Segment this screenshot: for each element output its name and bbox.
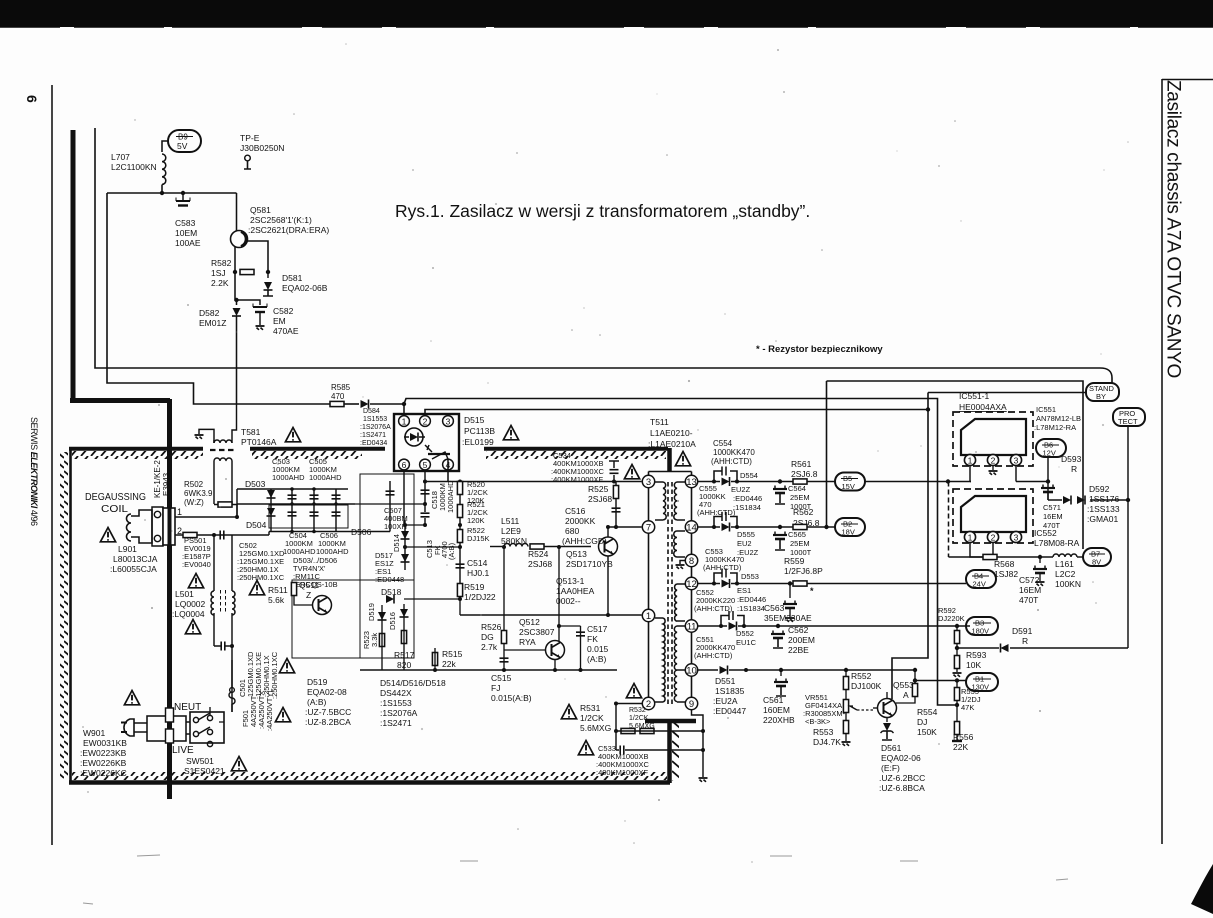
svg-text:1/2CK: 1/2CK [580, 713, 604, 723]
svg-text:EU1C: EU1C [736, 638, 757, 647]
svg-text:3: 3 [1014, 456, 1019, 466]
svg-text:R552: R552 [851, 671, 872, 681]
svg-text:100KN: 100KN [1055, 579, 1081, 589]
svg-text::1S2076A: :1S2076A [360, 424, 391, 431]
fuse F501 [231, 704, 233, 712]
ground below R593 [953, 673, 962, 677]
svg-text::LQ0004: :LQ0004 [172, 609, 205, 619]
transistor Q513 2SD1710YB [599, 537, 618, 556]
T511 secondary winding 14-8 [677, 531, 685, 557]
hatched enclosure: left border [69, 448, 72, 783]
svg-text::EV0040: :EV0040 [182, 560, 211, 569]
T511 primary winding 1-2 [655, 618, 663, 702]
wire: bottom return bus [360, 669, 617, 671]
svg-text:S1ES0421: S1ES0421 [184, 766, 225, 776]
svg-text:EU2Z: EU2Z [731, 485, 751, 494]
resistor R582 [240, 269, 254, 274]
svg-text:200EM: 200EM [788, 635, 815, 645]
svg-text:1000KK470: 1000KK470 [713, 448, 755, 457]
svg-text:D506: D506 [351, 527, 372, 537]
svg-text:IC552: IC552 [1034, 528, 1057, 538]
svg-text:1000AHD: 1000AHD [283, 547, 316, 556]
wire: rail 12 (B4 24V) [698, 583, 966, 585]
svg-text:2SJ68: 2SJ68 [528, 559, 552, 569]
svg-text:D592: D592 [1089, 484, 1110, 494]
svg-text:D516: D516 [388, 612, 397, 630]
svg-text:DS442X: DS442X [380, 688, 412, 698]
svg-text:2: 2 [991, 533, 996, 543]
diode D552 EU1C [729, 622, 737, 631]
svg-text:(A:B): (A:B) [447, 542, 456, 560]
capacitor C572 16EM 470T node [1038, 555, 1042, 559]
svg-text:10K: 10K [966, 660, 981, 670]
svg-text:R524: R524 [528, 549, 549, 559]
svg-text:C572: C572 [1019, 575, 1040, 585]
ground below pin 9 [699, 778, 708, 782]
svg-text:180V: 180V [972, 627, 990, 636]
diode D554 EU2Z [722, 477, 730, 486]
svg-text:D555: D555 [737, 530, 755, 539]
svg-text:LQ0002: LQ0002 [175, 599, 206, 609]
svg-text:(AHH:CTD): (AHH:CTD) [697, 508, 736, 517]
thick vertical mains separator [167, 399, 172, 799]
wire: T511 secondary rail [691, 472, 693, 704]
svg-text:(AHH:CTD): (AHH:CTD) [711, 457, 752, 466]
svg-text:EQA02-08: EQA02-08 [307, 687, 347, 697]
svg-text:1: 1 [402, 417, 407, 427]
svg-text:C571: C571 [1043, 503, 1061, 512]
capacitor C551 bracket [721, 616, 744, 627]
svg-text:L2E9: L2E9 [501, 526, 521, 536]
svg-text:C563: C563 [764, 603, 785, 613]
warning triangle near R531 [561, 705, 576, 719]
svg-text:1SS176: 1SS176 [1089, 494, 1120, 504]
T511 secondary winding 13-14 [677, 482, 685, 520]
capacitor C553 bracket [714, 517, 737, 528]
svg-text:Zasilacz chassis A7A OTVC SANY: Zasilacz chassis A7A OTVC SANYO [1163, 80, 1184, 378]
svg-text:C583: C583 [175, 218, 196, 228]
wire: R520 chain column [459, 482, 461, 576]
caps between [221, 642, 225, 651]
svg-text:7: 7 [646, 523, 651, 534]
svg-text:16EM: 16EM [1043, 512, 1063, 521]
svg-text:5V: 5V [177, 141, 188, 151]
svg-text:8: 8 [689, 556, 694, 567]
wire: D591 protect line [957, 647, 1128, 649]
svg-text::4A250VTYL: :4A250VTYL [265, 688, 274, 731]
svg-text:D584: D584 [363, 408, 380, 415]
svg-text:R568: R568 [994, 559, 1015, 569]
svg-text:2: 2 [646, 699, 651, 710]
capacitor C518 1000KM (pin5 drop) [424, 470, 426, 494]
svg-text:6: 6 [402, 460, 407, 470]
svg-text:13: 13 [686, 477, 697, 488]
svg-text:R502: R502 [184, 480, 204, 489]
svg-text::1S2076A: :1S2076A [380, 708, 418, 718]
svg-text:12V: 12V [1043, 449, 1056, 458]
svg-text:R525: R525 [588, 484, 609, 494]
svg-text:24V: 24V [973, 580, 986, 589]
diode D592a 1SS176 [1063, 496, 1071, 505]
svg-text:1S1553: 1S1553 [363, 416, 387, 423]
svg-text::ED0446: :ED0446 [737, 595, 766, 604]
warning triangle near C533 [578, 741, 593, 755]
snubber box [360, 474, 414, 658]
svg-text::UZ-7.5BCC: :UZ-7.5BCC [305, 707, 351, 717]
svg-text:DJ4.7K: DJ4.7K [813, 737, 841, 747]
node B1 130V pill [966, 673, 998, 691]
wire: IC551 pins 1,3 drops [970, 466, 1016, 482]
windings [214, 440, 232, 443]
regulator IC552 L78M08-RA [953, 489, 1033, 543]
svg-text:A: A [903, 690, 909, 700]
inductor L161 L2C2 100KN [1053, 554, 1077, 557]
svg-text:DJ220K: DJ220K [938, 614, 965, 623]
svg-text:DJ100K: DJ100K [851, 681, 882, 691]
wire: Q513 emitter to pin 1 rail [607, 557, 609, 616]
svg-text:1000AHD: 1000AHD [272, 473, 305, 482]
svg-text:Z: Z [306, 590, 311, 600]
wire: rail 13 (B5 15V) [698, 481, 835, 483]
resistor R520 1/2CK 120K [457, 482, 462, 495]
svg-text:25EM: 25EM [790, 539, 810, 548]
transistor Q581 [236, 193, 238, 231]
box around lower row [269, 505, 348, 528]
svg-text:T581: T581 [241, 427, 261, 437]
svg-text:9: 9 [689, 699, 694, 710]
svg-text::ED0446: :ED0446 [733, 494, 762, 503]
svg-text:R582: R582 [211, 258, 232, 268]
hatched enclosure: bottom border [69, 780, 670, 785]
svg-text:Rys.1. Zasilacz w wersji z tra: Rys.1. Zasilacz w wersji z transformator… [395, 201, 810, 221]
svg-text::250HM0.1XC: :250HM0.1XC [237, 573, 285, 582]
node PRO TECT pill [1113, 408, 1145, 426]
svg-text::EU2A: :EU2A [713, 696, 738, 706]
svg-text::ED0434: :ED0434 [360, 440, 387, 447]
ground below R553 [842, 742, 851, 746]
svg-text:(E:F): (E:F) [881, 763, 900, 773]
resistor R554 DJ 150K drop [913, 668, 917, 672]
svg-text:COIL: COIL [101, 503, 128, 515]
svg-text:D519: D519 [367, 603, 376, 621]
svg-text:W901: W901 [83, 728, 105, 738]
svg-text:LIVE: LIVE [172, 745, 194, 756]
svg-text:22BE: 22BE [788, 645, 809, 655]
svg-text:C516: C516 [565, 506, 586, 516]
svg-text:DEGAUSSING: DEGAUSSING [85, 491, 146, 503]
capacitor C563 35EM330AE [783, 601, 797, 609]
svg-text:KE-1/KE-2: KE-1/KE-2 [153, 460, 162, 498]
svg-text::UZ-6.8BCA: :UZ-6.8BCA [879, 783, 925, 793]
svg-text:EU2: EU2 [737, 539, 752, 548]
T511 pins 13,14,8,12,11,10,9 [685, 475, 697, 709]
svg-text:35EM330AE: 35EM330AE [764, 613, 812, 623]
potentiometer VR551 GF0414XA [843, 700, 848, 713]
capacitor C515 FJ 0.015 [500, 658, 509, 662]
svg-text:TECT: TECT [1118, 417, 1138, 426]
resistor R552 DJ100K [843, 677, 848, 690]
svg-text::1S1553: :1S1553 [380, 698, 412, 708]
svg-text:(A:B): (A:B) [587, 654, 607, 664]
svg-text:160EM: 160EM [763, 705, 790, 715]
svg-text:D553: D553 [741, 572, 759, 581]
resistor R515 22k [432, 653, 437, 666]
wire: B5 rail to IC551 pin 1 [865, 481, 971, 483]
svg-text::L78M12-RA: :L78M12-RA [1034, 423, 1076, 432]
svg-text:D591: D591 [1012, 626, 1033, 636]
resistor R522 DJ15K [457, 530, 462, 543]
diode D584 1S1553 [361, 400, 369, 409]
wire: R585 bus to opto [344, 403, 359, 405]
svg-text:D518: D518 [381, 587, 402, 597]
transformer shield verticals [667, 448, 672, 471]
svg-text:0.015(A:B): 0.015(A:B) [491, 693, 532, 703]
wire: rail 14 (B2 18V) [698, 526, 835, 528]
ground bar below R556 [952, 740, 962, 742]
svg-text:1000AHD: 1000AHD [446, 480, 455, 513]
svg-text:R526: R526 [481, 622, 502, 632]
svg-text::1SS133: :1SS133 [1087, 504, 1120, 514]
resistor R593 10K [954, 656, 959, 669]
svg-text:HE0004AXA: HE0004AXA [959, 402, 1007, 412]
svg-text:47K: 47K [961, 703, 974, 712]
resistor R531 element [621, 728, 635, 733]
svg-text:D519: D519 [307, 677, 328, 687]
svg-text:DJ15K: DJ15K [467, 534, 490, 543]
svg-text:14: 14 [686, 523, 697, 534]
svg-text:L2C1100KN: L2C1100KN [111, 162, 157, 172]
wire: bus B y=381 down at x=826.5 [827, 381, 1084, 549]
svg-text:RYA: RYA [519, 637, 536, 647]
svg-text:470T: 470T [1019, 595, 1038, 605]
svg-text:1: 1 [968, 456, 973, 466]
svg-text:R: R [1022, 636, 1028, 646]
svg-text:220XHB: 220XHB [763, 715, 795, 725]
svg-text:R519: R519 [464, 582, 485, 592]
svg-text:IC551-1: IC551-1 [959, 391, 990, 401]
svg-text:6: 6 [24, 95, 40, 103]
svg-text:3.3k: 3.3k [370, 633, 379, 647]
svg-text:T511: T511 [650, 417, 669, 427]
svg-text:EM: EM [273, 316, 286, 326]
svg-text:D554: D554 [740, 471, 758, 480]
svg-text:3: 3 [1014, 533, 1019, 543]
svg-text:EW0031KB: EW0031KB [83, 738, 127, 748]
resistor R553 DJ4.7K [843, 721, 848, 734]
resistor R532 element [640, 728, 654, 733]
B9 pill [168, 130, 201, 152]
degaussing coil L901 [127, 514, 132, 541]
node B5 15V pill [835, 473, 865, 491]
svg-text:R556: R556 [953, 732, 974, 742]
svg-text::EU2Z: :EU2Z [737, 548, 759, 557]
svg-text:16EM: 16EM [1019, 585, 1041, 595]
wire: B1 rail [915, 680, 966, 682]
diode D582 [235, 272, 237, 305]
node B4 24V pill [966, 570, 996, 588]
svg-text:2.7k: 2.7k [481, 642, 498, 652]
thick mains separator L (top-left) [71, 130, 76, 399]
wire: Q513 collector [607, 527, 609, 537]
switch SW501 [190, 712, 224, 743]
svg-text:2SC3807: 2SC3807 [519, 627, 555, 637]
capacitor C583 [182, 193, 184, 200]
svg-text:D582: D582 [199, 308, 220, 318]
ground at pin 8 [680, 561, 685, 565]
svg-text:2SJ68: 2SJ68 [588, 494, 612, 504]
node STAND BY pill [1086, 383, 1119, 401]
svg-text:0002--: 0002-- [556, 596, 581, 606]
svg-text::1S1834: :1S1834 [733, 503, 761, 512]
svg-text:10EM: 10EM [175, 228, 197, 238]
resistor R568 1SJ82 [983, 554, 997, 559]
left page rule [51, 85, 53, 845]
resistor R592 element [954, 631, 959, 644]
svg-text:C517: C517 [587, 624, 608, 634]
svg-text:(AHH:CTD): (AHH:CTD) [694, 604, 733, 613]
ground at IC551 pin 2 [992, 466, 994, 470]
svg-text::1S2471: :1S2471 [360, 432, 386, 439]
wire: feedback bus y=398.5 [404, 399, 957, 706]
svg-text:100AE: 100AE [175, 238, 201, 248]
svg-text:BY: BY [1096, 392, 1106, 401]
wire: left drop to long standby bus [95, 128, 1100, 368]
resistor R524 2SJ68 [530, 544, 544, 549]
svg-text::2SC2621(DRA:ERA): :2SC2621(DRA:ERA) [248, 225, 329, 235]
wire: IC552 pin 1 to B7 rail [970, 543, 983, 557]
svg-text::ED0447: :ED0447 [713, 706, 746, 716]
transformer T511 top tie [649, 471, 692, 473]
svg-text:*: * [810, 586, 814, 596]
svg-text::EW0226KB: :EW0226KB [80, 758, 127, 768]
svg-text:SW501: SW501 [186, 756, 214, 766]
svg-text:DJ: DJ [917, 717, 927, 727]
svg-text:2: 2 [991, 456, 996, 466]
resistor R519 1/2DJ22 wire [459, 596, 461, 615]
svg-text:* - Rezystor bezpiecznikowy: * - Rezystor bezpiecznikowy [756, 344, 883, 355]
svg-text:680: 680 [565, 526, 579, 536]
svg-text:1AA0HEA: 1AA0HEA [556, 586, 595, 596]
svg-text:R553: R553 [813, 727, 834, 737]
rails of rectifier [237, 488, 348, 490]
node B6 12V pill [1036, 439, 1066, 457]
svg-text:1: 1 [646, 611, 651, 622]
svg-text:470: 470 [331, 392, 345, 401]
svg-text:2SD1710YB: 2SD1710YB [566, 559, 613, 569]
bottom right corner mark [1191, 864, 1213, 914]
mains plug W901 [124, 719, 134, 736]
hatched enclosure: top border segments [69, 447, 203, 451]
capacitor C554 1000KK470 bracket [714, 471, 737, 482]
capacitor C564 25EM 1000T [773, 486, 787, 494]
svg-text:FK: FK [587, 634, 598, 644]
capacitor C533 400KM1000XB [620, 746, 624, 755]
svg-text:EM01Z: EM01Z [199, 318, 226, 328]
svg-text:R585: R585 [331, 383, 351, 392]
C561 [779, 668, 783, 672]
svg-text:22K: 22K [953, 742, 968, 752]
wire: dashed link B5 rail to B7 rail [948, 482, 950, 558]
wire: opto pin2 bus y=409.5 [425, 410, 928, 415]
svg-text:L707: L707 [111, 152, 130, 162]
svg-text:5: 5 [423, 460, 428, 470]
svg-text:D593: D593 [1061, 454, 1082, 464]
svg-text:C582: C582 [273, 306, 294, 316]
svg-text:R561: R561 [791, 459, 812, 469]
svg-text:1/2FJ6.8P: 1/2FJ6.8P [784, 566, 823, 576]
svg-text:10: 10 [686, 666, 697, 677]
svg-text:PC113B: PC113B [464, 426, 495, 436]
C507 [389, 481, 391, 532]
svg-text:1SJ: 1SJ [211, 268, 226, 278]
svg-text:8V: 8V [1092, 558, 1101, 567]
svg-text:D504: D504 [246, 520, 267, 530]
node junction above opto pin1 [402, 402, 406, 406]
warning triangle near C534 [624, 465, 639, 479]
svg-text:Q553: Q553 [893, 680, 914, 690]
connector on separator [163, 508, 175, 545]
svg-text:L78M08-RA: L78M08-RA [1034, 538, 1080, 548]
svg-text:R531: R531 [580, 703, 601, 713]
svg-text:R559: R559 [784, 556, 805, 566]
svg-text:L501: L501 [175, 589, 194, 599]
svg-text:(AHH:CTD): (AHH:CTD) [694, 651, 733, 660]
svg-text:D503: D503 [245, 479, 266, 489]
svg-text::L60055CJA: :L60055CJA [110, 564, 157, 574]
svg-text:Q511: Q511 [299, 580, 319, 590]
svg-text:15V: 15V [842, 482, 855, 491]
svg-text:22k: 22k [442, 659, 456, 669]
svg-text::GMA01: :GMA01 [1087, 514, 1118, 524]
svg-text:Q513-1: Q513-1 [556, 576, 585, 586]
faint bottom scan marks [83, 855, 1068, 904]
Q511 + R511 [292, 580, 414, 658]
svg-text:R: R [1071, 464, 1077, 474]
svg-text:D514: D514 [392, 534, 401, 552]
svg-text:ES1: ES1 [737, 586, 751, 595]
transformer bottom thick bar [645, 719, 696, 724]
svg-text:C554: C554 [713, 439, 733, 448]
svg-text:D514/D516/D518: D514/D516/D518 [380, 678, 446, 688]
wire: rail 10 (B1 130V) [698, 669, 915, 671]
svg-text:1/2DJ22: 1/2DJ22 [464, 592, 496, 602]
svg-text:C561: C561 [763, 695, 784, 705]
T511 secondary winding 12-11 [677, 584, 685, 621]
svg-text:6WK3.9: 6WK3.9 [184, 489, 213, 498]
opto D515 [394, 414, 459, 471]
wire top of subcircuit [107, 192, 237, 194]
capacitor C517 FK 0.015 [576, 632, 585, 636]
warning triangle above R532 [626, 684, 641, 698]
svg-text:SERWIS ELEKTRONIKI 4/96: SERWIS ELEKTRONIKI 4/96 [29, 417, 39, 526]
wire: second bus from top-left circuit [107, 193, 330, 404]
wire: protect line down [1127, 426, 1129, 648]
svg-text::UZ-8.2BCA: :UZ-8.2BCA [305, 717, 351, 727]
wire: Q512 collector column [558, 547, 560, 641]
wire: D592 line to protect [1048, 499, 1128, 501]
wire: primary HV rail y=481.5 [447, 460, 449, 482]
svg-text:1: 1 [177, 507, 182, 517]
svg-text:R554: R554 [917, 707, 938, 717]
wire: rail 11 (B3 180V) [698, 625, 970, 627]
svg-text:1000AHD: 1000AHD [316, 547, 349, 556]
svg-text::EW0226KC: :EW0226KC [80, 768, 127, 778]
capacitor C561 160EM 220XHB [780, 670, 782, 676]
svg-text:<B-3K>: <B-3K> [805, 717, 831, 726]
T511 primary winding 3-7 [655, 482, 663, 520]
diode D551 1S1835 [720, 666, 728, 675]
svg-text:D552: D552 [736, 629, 754, 638]
